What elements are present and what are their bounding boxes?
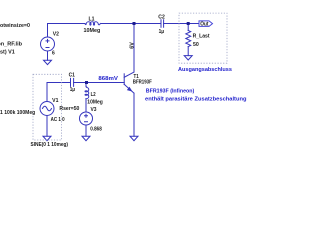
output port Out	[199, 21, 213, 28]
inductor L2	[85, 83, 87, 87]
wire collector branch	[133, 24, 135, 73]
junction node base-L2	[85, 81, 88, 84]
dashed box output	[179, 13, 227, 63]
wire V2 to ground	[47, 51, 49, 60]
capacitor C2	[161, 20, 164, 28]
wire C1 to base	[74, 82, 125, 84]
svg-text:1µ: 1µ	[159, 29, 165, 35]
ground under V3	[82, 136, 90, 141]
svg-text:SINE(0 1 10meg): SINE(0 1 10meg)	[31, 142, 69, 148]
wire emitter down	[133, 93, 135, 136]
wire V1 to ground	[46, 116, 48, 137]
svg-text:6: 6	[52, 51, 55, 57]
dashed box input	[33, 74, 62, 140]
svg-text:BFR193F: BFR193F	[133, 79, 152, 85]
svg-text:Rser=50: Rser=50	[59, 106, 79, 112]
inductor L1	[85, 22, 101, 25]
svg-text:V2: V2	[53, 32, 59, 38]
svg-text:C1: C1	[69, 73, 76, 79]
wire top net V2 to L1	[48, 24, 86, 38]
svg-text:L2: L2	[91, 92, 96, 98]
svg-text:on_RF.lib: on_RF.lib	[0, 42, 22, 48]
wire junction to port	[188, 23, 199, 25]
svg-text:AC 1 0: AC 1 0	[51, 117, 65, 123]
ground under V2	[44, 60, 52, 64]
wire V3 to ground	[85, 125, 87, 136]
svg-text:V1: V1	[52, 98, 59, 104]
svg-text:V3: V3	[91, 107, 97, 113]
wire L2 to V3	[85, 99, 87, 112]
voltage source V2	[41, 37, 55, 51]
capacitor C1	[71, 78, 74, 86]
svg-text:BFR193F (Infineon): BFR193F (Infineon)	[146, 88, 195, 94]
ground under R_Last	[184, 56, 192, 60]
transistor T1	[123, 74, 125, 85]
ground under V1	[43, 136, 51, 141]
wire L1 to C2	[101, 23, 161, 25]
wire V1 top	[47, 83, 71, 102]
svg-text:6V: 6V	[129, 41, 135, 48]
junction node top-RLast	[187, 22, 190, 25]
svg-text:50: 50	[193, 42, 199, 48]
svg-text:10Meg: 10Meg	[84, 28, 101, 34]
svg-text:10Meg: 10Meg	[87, 99, 103, 105]
svg-text:R_Last: R_Last	[193, 34, 210, 40]
wire R_Last to ground	[187, 47, 189, 56]
input source V1	[40, 102, 54, 116]
svg-text:Ausgangsabschluss: Ausgangsabschluss	[178, 67, 232, 73]
svg-text:enthält parasitäre Zusatzbesch: enthält parasitäre Zusatzbeschaltung	[145, 97, 247, 103]
svg-text:0.868: 0.868	[90, 127, 102, 133]
svg-text:otwinsize=0: otwinsize=0	[0, 23, 30, 29]
junction node top-collector	[133, 22, 136, 25]
ground under T1	[130, 136, 138, 141]
svg-text:C2: C2	[158, 14, 165, 20]
svg-text:1 100k 100Meg: 1 100k 100Meg	[0, 110, 35, 116]
wire C2 to Out junction	[164, 23, 189, 25]
svg-text:Out: Out	[200, 21, 209, 27]
svg-text:L1: L1	[89, 16, 95, 22]
svg-text:868mV: 868mV	[98, 76, 118, 82]
svg-text:st) V1: st) V1	[0, 49, 15, 55]
voltage source V3	[80, 112, 93, 125]
svg-text:1µ: 1µ	[70, 87, 75, 93]
resistor R_Last	[187, 24, 189, 31]
